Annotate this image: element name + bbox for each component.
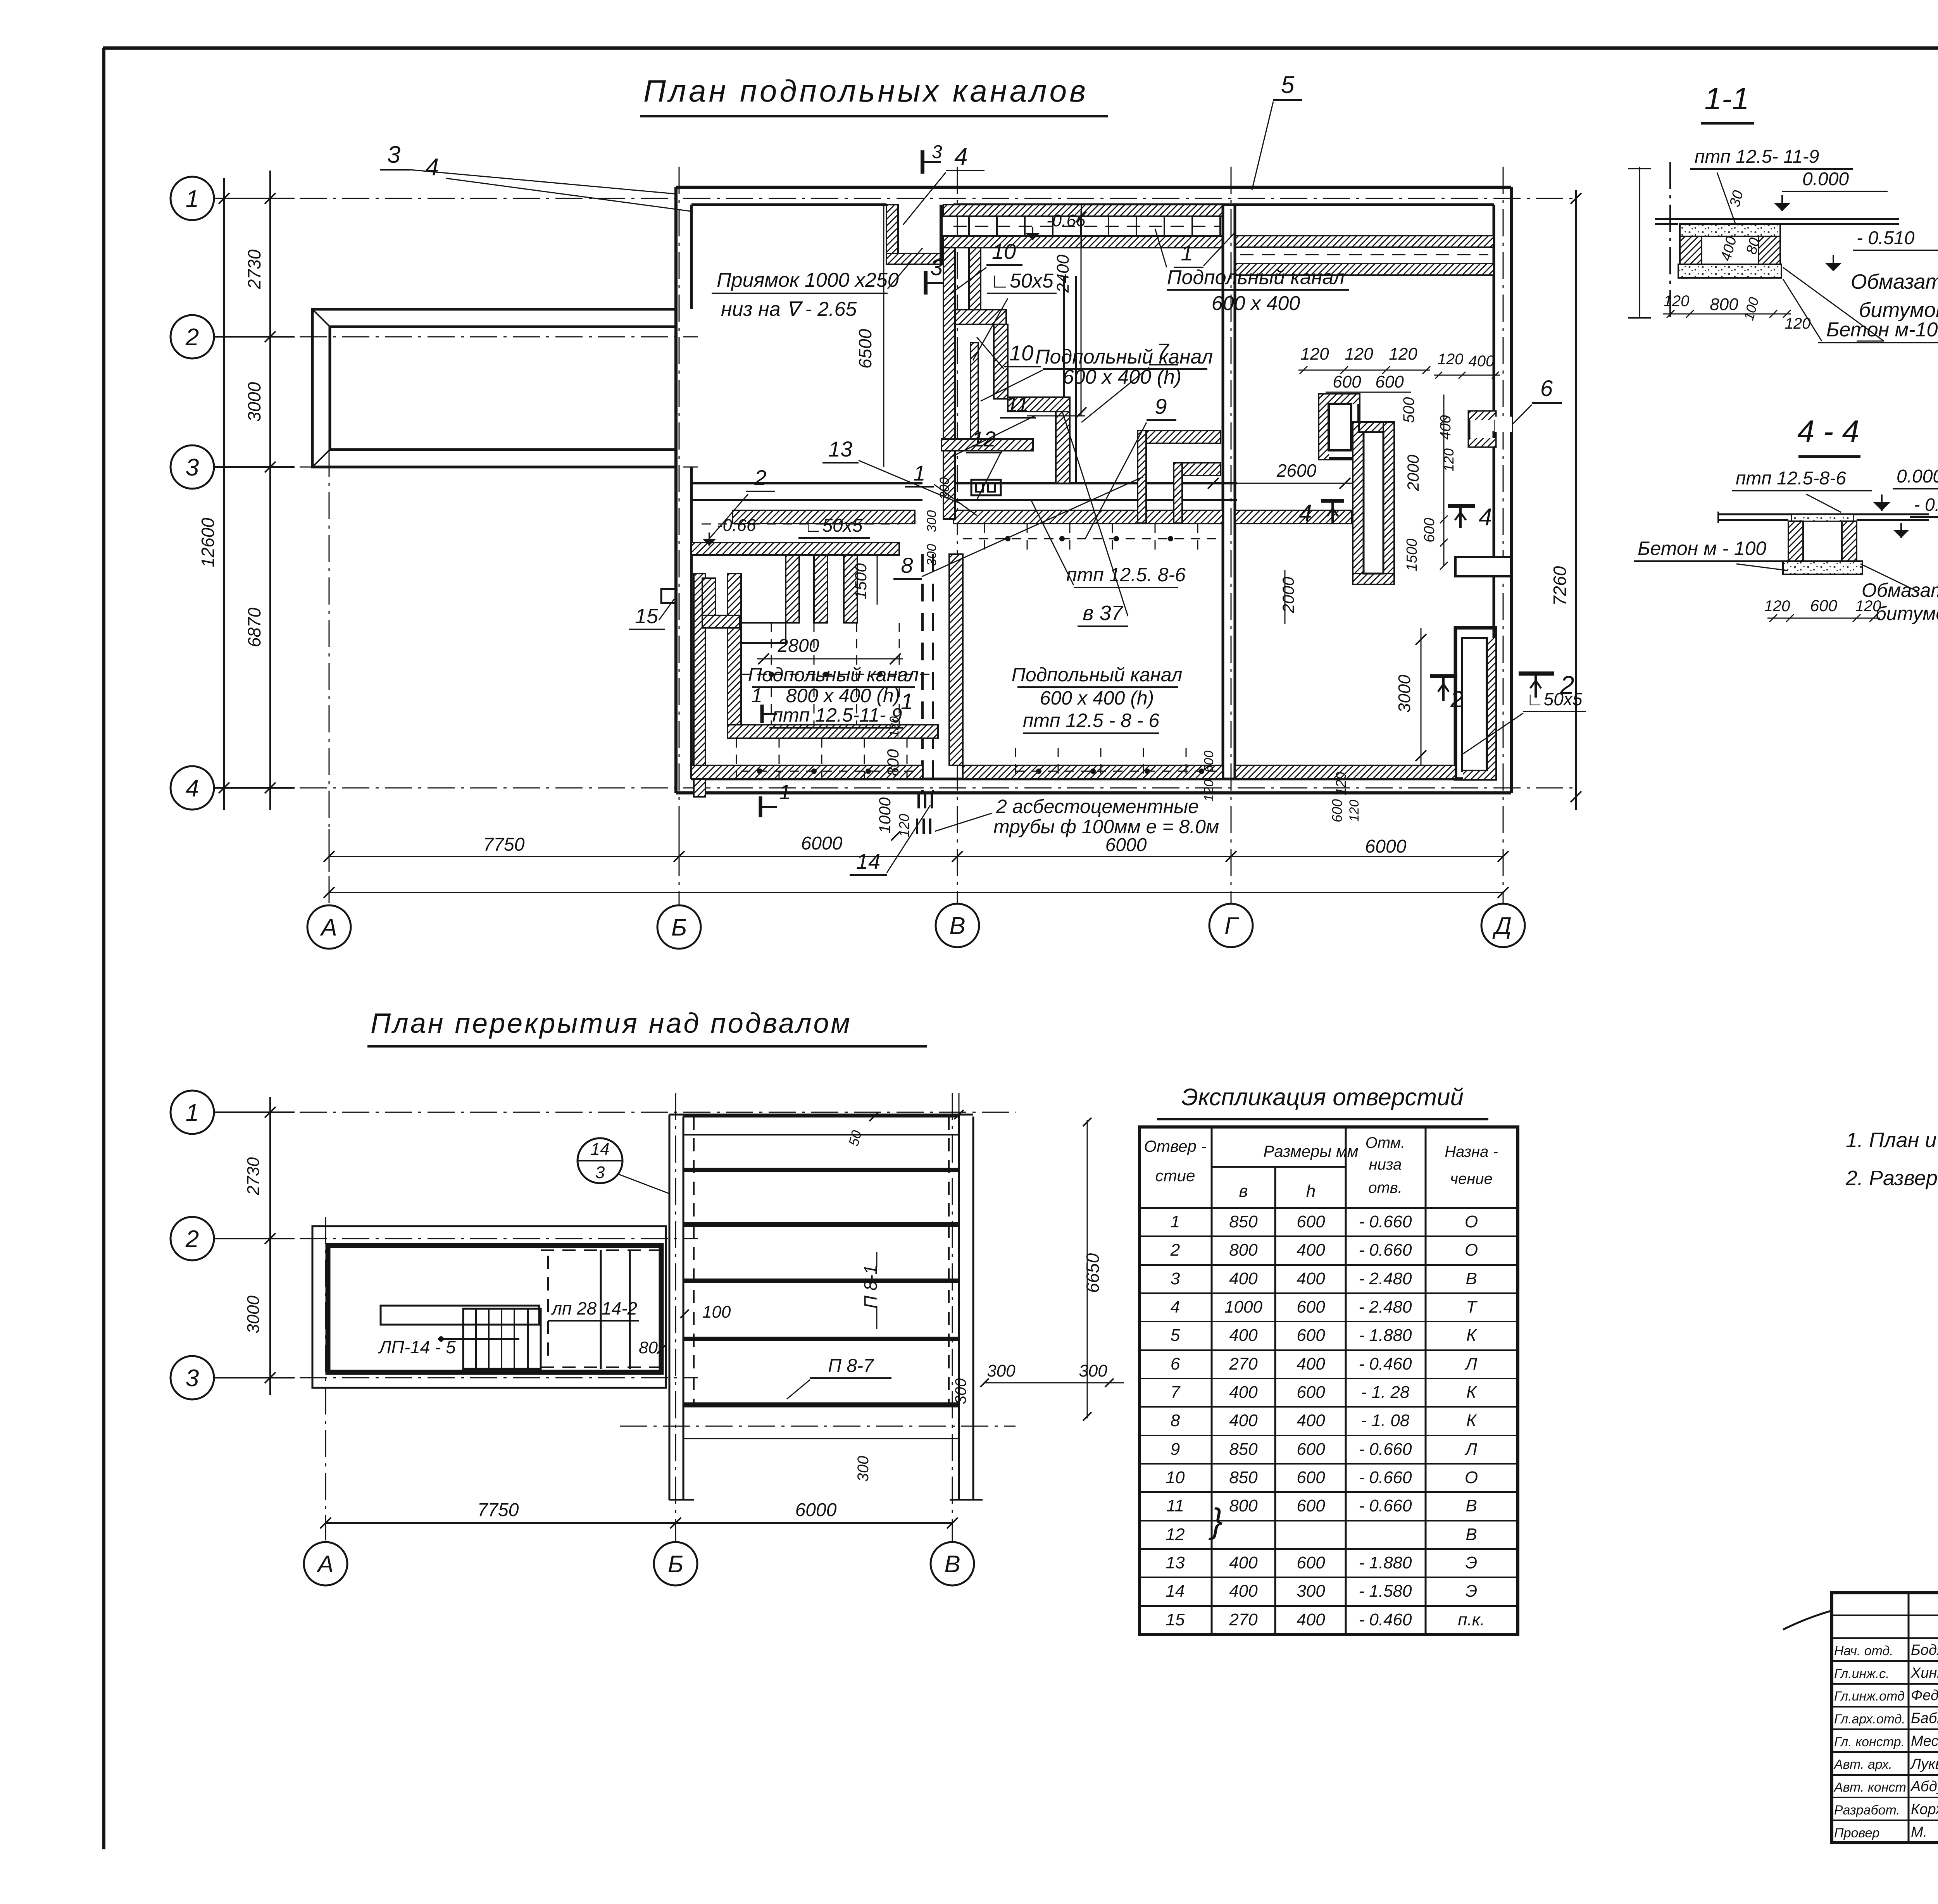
channel P-shape at G wall xyxy=(1142,431,1221,443)
svg-text:4: 4 xyxy=(426,154,439,181)
svg-text:Федорченко: Федорченко xyxy=(1911,1687,1938,1704)
svg-text:400: 400 xyxy=(1229,1383,1258,1402)
svg-text:10: 10 xyxy=(1009,341,1033,365)
svg-text:Абдулин: Абдулин xyxy=(1910,1778,1938,1795)
panel edge dashes xyxy=(693,1117,695,1405)
svg-text:П 8-1: П 8-1 xyxy=(860,1265,881,1309)
svg-text:600: 600 xyxy=(1297,1326,1325,1345)
svg-text:Отм.: Отм. xyxy=(1366,1134,1405,1151)
svg-text:В: В xyxy=(1466,1269,1477,1288)
top channel ladder lines xyxy=(968,216,970,236)
svg-text:3000: 3000 xyxy=(1395,675,1414,713)
outer wall right xyxy=(1510,187,1513,793)
svg-text:600: 600 xyxy=(1297,1440,1325,1459)
partition wall x2745 xyxy=(1063,276,1065,483)
svg-text:2: 2 xyxy=(1170,1241,1180,1260)
axis circle 1 xyxy=(171,177,214,220)
plan2 left block inner thick xyxy=(328,1246,661,1372)
svg-text:3: 3 xyxy=(387,141,400,168)
svg-text:План подпольных каналов: План подпольных каналов xyxy=(643,74,1088,108)
svg-text:низ на ∇ - 2.65: низ на ∇ - 2.65 xyxy=(721,298,857,320)
svg-text:Провер: Провер xyxy=(1834,1826,1879,1840)
slab dashes above comb xyxy=(702,524,899,525)
svg-text:План перекрытия над подвалом: План перекрытия над подвалом xyxy=(371,1008,852,1039)
plan2 bottom dims xyxy=(326,1522,952,1524)
svg-text:300: 300 xyxy=(855,1456,872,1482)
svg-text:120: 120 xyxy=(1664,293,1690,310)
svg-text:600: 600 xyxy=(1297,1496,1325,1515)
svg-text:А: А xyxy=(316,1551,333,1578)
svg-text:2730: 2730 xyxy=(244,1157,263,1196)
stamp left signature columns xyxy=(1908,1593,1910,1843)
asbestos pipes dashed xyxy=(921,554,924,793)
svg-text:лп 28 14-2: лп 28 14-2 xyxy=(551,1298,637,1318)
svg-text:2: 2 xyxy=(1450,686,1463,712)
top channel bands G-D xyxy=(1235,236,1494,247)
bottom channel band xyxy=(691,765,922,779)
svg-text:400: 400 xyxy=(1229,1582,1258,1601)
svg-text:13: 13 xyxy=(828,437,852,461)
right room zigzag channel: small box xyxy=(1319,395,1359,459)
svg-text:- 0.660: - 0.660 xyxy=(1359,1212,1412,1231)
svg-text:2: 2 xyxy=(185,1226,199,1253)
section 1-1 dims xyxy=(1663,314,1791,315)
svg-text:120: 120 xyxy=(1441,448,1457,472)
svg-text:5: 5 xyxy=(1281,72,1295,98)
6500 dim xyxy=(883,205,885,467)
svg-text:6000: 6000 xyxy=(801,833,843,854)
svg-text:14: 14 xyxy=(591,1140,610,1159)
svg-text:120: 120 xyxy=(1764,598,1790,615)
left dim chain xyxy=(269,171,271,810)
outer wall left xyxy=(674,187,678,793)
svg-text:Подпольный канал: Подпольный канал xyxy=(1035,346,1213,368)
svg-text:300: 300 xyxy=(1079,1361,1107,1380)
svg-text:14: 14 xyxy=(1166,1582,1185,1601)
svg-text:120: 120 xyxy=(1202,780,1216,802)
svg-text:2000: 2000 xyxy=(1404,455,1422,491)
dim 2800 left room xyxy=(757,658,903,660)
svg-text:К: К xyxy=(1466,1326,1477,1345)
callout circle 14/3 xyxy=(578,1138,622,1183)
svg-text:- 0.460: - 0.460 xyxy=(1359,1610,1412,1629)
svg-text:Лукьянов: Лукьянов xyxy=(1910,1756,1938,1772)
svg-text:11: 11 xyxy=(1166,1496,1184,1515)
svg-text:300: 300 xyxy=(952,1378,969,1404)
cut 1 bottom xyxy=(759,796,762,817)
axis line D vert xyxy=(1503,167,1504,903)
axis circle 3 xyxy=(171,1356,214,1399)
svg-text:К: К xyxy=(1466,1383,1477,1402)
svg-text:Бодянский: Бодянский xyxy=(1911,1642,1938,1658)
top channel dashed centerline xyxy=(1240,254,1488,255)
svg-text:- 0.510: - 0.510 xyxy=(1914,495,1938,515)
svg-text:Подпольный канал: Подпольный канал xyxy=(1012,664,1183,686)
svg-text:7: 7 xyxy=(1171,1383,1181,1402)
svg-text:- 1.880: - 1.880 xyxy=(1359,1553,1412,1572)
svg-text:850: 850 xyxy=(1229,1440,1258,1459)
axis circle В xyxy=(936,904,979,947)
svg-text:600: 600 xyxy=(1421,518,1438,542)
svg-text:800: 800 xyxy=(1229,1496,1258,1515)
svg-text:∟50х5: ∟50х5 xyxy=(990,270,1054,292)
svg-text:4: 4 xyxy=(954,143,967,170)
slab grid middle band upper xyxy=(984,524,985,554)
bottom dim chain xyxy=(329,856,1503,857)
svg-text:1000: 1000 xyxy=(1224,1297,1262,1316)
channel L-step right xyxy=(955,310,1006,324)
svg-text:270: 270 xyxy=(1229,1354,1258,1373)
svg-text:Бетон м-100: Бетон м-100 xyxy=(1826,319,1938,341)
stair bar xyxy=(381,1306,539,1325)
svg-text:800 х 400 (h): 800 х 400 (h) xyxy=(786,685,900,706)
svg-text:Обмазать горячим: Обмазать горячим xyxy=(1851,270,1938,293)
svg-text:2: 2 xyxy=(185,324,199,351)
svg-text:3000: 3000 xyxy=(244,382,264,422)
svg-text:О: О xyxy=(1465,1212,1478,1231)
plan2 right block walls xyxy=(669,1115,671,1500)
svg-text:3: 3 xyxy=(186,1365,199,1392)
svg-text:800: 800 xyxy=(1710,295,1738,314)
dim 3000 right xyxy=(1421,628,1422,765)
svg-text:∟50х5: ∟50х5 xyxy=(1526,689,1583,709)
sheet frame left border xyxy=(102,48,105,1849)
svg-text:битумом за 2 раза: битумом за 2 раза xyxy=(1876,603,1938,624)
comb channel teeth (left room) xyxy=(691,543,899,555)
svg-text:в 37: в 37 xyxy=(1083,601,1123,625)
svg-text:- 0.660: - 0.660 xyxy=(1359,1241,1412,1260)
svg-text:300: 300 xyxy=(924,544,939,566)
vertical channel at axis V lower xyxy=(949,554,963,765)
svg-text:- 0.660: - 0.660 xyxy=(1359,1440,1412,1459)
axis circle Г xyxy=(1209,904,1253,947)
svg-text:1: 1 xyxy=(1171,1212,1180,1231)
svg-text:11: 11 xyxy=(1006,392,1029,416)
svg-text:300: 300 xyxy=(924,510,939,532)
svg-text:6000: 6000 xyxy=(1105,835,1147,855)
svg-text:12: 12 xyxy=(1166,1525,1185,1544)
svg-text:0.000: 0.000 xyxy=(1897,466,1938,487)
svg-text:6870: 6870 xyxy=(244,607,264,647)
axis circle 4 xyxy=(171,766,214,810)
rotated dim stack right xyxy=(1443,395,1445,566)
axis circle В xyxy=(931,1542,974,1585)
svg-text:Гл. констр.: Гл. констр. xyxy=(1834,1735,1905,1749)
svg-text:стие: стие xyxy=(1155,1167,1195,1185)
svg-text:300: 300 xyxy=(937,477,952,500)
svg-text:Авт. конст: Авт. конст xyxy=(1833,1780,1906,1795)
svg-text:Назна -: Назна - xyxy=(1445,1143,1498,1160)
stub box right wall mid xyxy=(1455,557,1511,576)
svg-text:в: в xyxy=(1239,1182,1248,1201)
svg-text:2: 2 xyxy=(754,465,766,490)
svg-text:120: 120 xyxy=(1345,345,1373,364)
svg-text:Б: Б xyxy=(668,1551,683,1578)
svg-text:2 асбестоцементные: 2 асбестоцементные xyxy=(996,796,1199,817)
svg-text:10: 10 xyxy=(992,239,1016,264)
svg-text:600: 600 xyxy=(1375,372,1404,391)
axis circle 2 xyxy=(171,315,214,358)
svg-text:400: 400 xyxy=(1438,415,1454,439)
svg-text:400: 400 xyxy=(1229,1553,1258,1572)
svg-text:12600: 12600 xyxy=(198,518,218,567)
plan2 left block outer xyxy=(312,1226,666,1388)
floor slab dashed grid left xyxy=(736,738,737,779)
svg-text:- 1. 08: - 1. 08 xyxy=(1361,1411,1410,1430)
svg-text:- 1.580: - 1.580 xyxy=(1359,1582,1412,1601)
axis line A vert xyxy=(329,450,330,905)
explication table grid xyxy=(1140,1127,1518,1634)
svg-text:О: О xyxy=(1465,1241,1478,1260)
svg-text:О: О xyxy=(1465,1468,1478,1487)
svg-text:Приямок 1000 х250: Приямок 1000 х250 xyxy=(717,269,899,291)
svg-text:Подпольный канал: Подпольный канал xyxy=(1167,266,1345,289)
svg-text:низа: низа xyxy=(1369,1156,1402,1173)
svg-text:850: 850 xyxy=(1229,1212,1258,1231)
svg-text:4 - 4: 4 - 4 xyxy=(1797,414,1859,448)
plan2 left dims xyxy=(269,1097,271,1395)
svg-text:400: 400 xyxy=(1297,1610,1325,1629)
svg-text:Гл.инж.с.: Гл.инж.с. xyxy=(1834,1666,1890,1681)
svg-text:2730: 2730 xyxy=(244,249,264,289)
svg-text:∟50х5: ∟50х5 xyxy=(804,515,862,536)
svg-text:8: 8 xyxy=(901,553,913,577)
svg-text:7750: 7750 xyxy=(478,1500,519,1520)
svg-text:2. Развертки фундаментов с: 2. Развертки фундаментов см. лист АС – 8 xyxy=(1845,1167,1938,1190)
svg-text:1: 1 xyxy=(1181,241,1193,265)
sheet frame top border xyxy=(103,47,1938,50)
svg-text:Разработ.: Разработ. xyxy=(1834,1803,1900,1818)
svg-text:2600: 2600 xyxy=(1276,460,1317,481)
cross wall y1247 xyxy=(691,482,922,484)
2400 dim xyxy=(1081,211,1082,416)
svg-text:ЛП-14 - 5: ЛП-14 - 5 xyxy=(378,1337,456,1357)
svg-text:1000: 1000 xyxy=(876,797,894,834)
section 1-1 bottom strip xyxy=(1678,264,1781,278)
svg-text:1500: 1500 xyxy=(1404,539,1420,572)
svg-text:12: 12 xyxy=(972,427,996,451)
axis line 2 xyxy=(214,336,698,338)
svg-text:Б: Б xyxy=(671,914,687,941)
svg-text:1: 1 xyxy=(186,186,199,212)
plan2 axis lines xyxy=(214,1112,1016,1113)
svg-text:13: 13 xyxy=(1166,1553,1185,1572)
svg-text:птп 12.5-8-6: птп 12.5-8-6 xyxy=(1736,468,1846,489)
section 1-1 left datum xyxy=(1639,167,1640,319)
svg-text:1: 1 xyxy=(186,1099,199,1126)
svg-text:Бабыкина: Бабыкина xyxy=(1911,1710,1938,1727)
svg-text:Авт. арх.: Авт. арх. xyxy=(1833,1757,1892,1772)
svg-text:Подпольный канал: Подпольный канал xyxy=(748,664,919,686)
svg-text:400: 400 xyxy=(1297,1411,1325,1430)
svg-text:1. План и сечения фундамен: 1. План и сечения фундаментов см. лист А… xyxy=(1846,1129,1938,1152)
plan2 lower stubs xyxy=(669,1499,694,1501)
svg-text:80: 80 xyxy=(639,1338,658,1357)
axis circle 2 xyxy=(171,1217,214,1260)
svg-text:600: 600 xyxy=(1202,751,1216,773)
svg-text:7750: 7750 xyxy=(483,834,525,855)
svg-text:Л: Л xyxy=(1464,1440,1478,1459)
svg-text:Л: Л xyxy=(1464,1354,1478,1373)
svg-text:400: 400 xyxy=(1229,1326,1258,1345)
svg-text:7: 7 xyxy=(1157,339,1169,363)
svg-text:- 1.880: - 1.880 xyxy=(1359,1326,1412,1345)
dashed landing area xyxy=(541,1249,661,1251)
svg-text:0.000: 0.000 xyxy=(1802,169,1849,190)
axis line 1 xyxy=(214,198,1574,199)
svg-text:птп 12.5-11- 9: птп 12.5-11- 9 xyxy=(772,704,902,726)
svg-text:6650: 6650 xyxy=(1083,1253,1103,1293)
svg-text:15: 15 xyxy=(635,605,659,628)
svg-text:В: В xyxy=(1466,1525,1477,1544)
top channel bands V-G xyxy=(943,205,1223,216)
svg-text:В: В xyxy=(944,1551,960,1578)
dim 2000 mid room xyxy=(1285,570,1286,624)
svg-text:600: 600 xyxy=(1297,1297,1325,1316)
right room zigzag channel: tall leg xyxy=(1353,422,1364,584)
section 1-1 slab xyxy=(1680,224,1780,236)
svg-text:120: 120 xyxy=(887,716,901,737)
svg-text:Экспликация отверстий: Экспликация отверстий xyxy=(1181,1084,1464,1111)
pryamok pit box xyxy=(886,205,898,253)
section 1-1 walls xyxy=(1680,236,1702,264)
svg-text:- 1. 28: - 1. 28 xyxy=(1361,1383,1410,1402)
svg-text:600: 600 xyxy=(1297,1553,1325,1572)
axis line V vert xyxy=(957,167,958,903)
svg-text:800: 800 xyxy=(1229,1241,1258,1260)
stair treads xyxy=(463,1309,541,1369)
section 4-4 slab xyxy=(1718,513,1929,515)
axis circle 3 xyxy=(171,445,214,489)
svg-text:300: 300 xyxy=(1297,1582,1325,1601)
svg-text:2000: 2000 xyxy=(1279,577,1297,613)
stray line near stamp left xyxy=(1783,1611,1832,1630)
right dim 7260 xyxy=(1575,190,1577,810)
svg-text:7260: 7260 xyxy=(1550,566,1570,606)
axis circle Д xyxy=(1481,904,1525,947)
svg-text:Коржизек: Коржизек xyxy=(1911,1801,1938,1818)
svg-text:400: 400 xyxy=(1229,1411,1258,1430)
svg-text:- 2.480: - 2.480 xyxy=(1359,1297,1412,1316)
central wall on axis G xyxy=(1222,205,1224,779)
svg-text:Э: Э xyxy=(1466,1582,1478,1601)
outer wall top xyxy=(676,186,1511,189)
svg-text:птп 12.5 - 8 - 6: птп 12.5 - 8 - 6 xyxy=(1023,710,1160,731)
svg-text:15: 15 xyxy=(1166,1610,1185,1629)
axis circle А xyxy=(307,905,351,949)
cut mark 3 xyxy=(924,271,928,295)
section 1-1 floor line xyxy=(1655,218,1899,220)
svg-text:А: А xyxy=(319,914,337,941)
channel band under cross wall xyxy=(733,510,915,524)
svg-text:1500: 1500 xyxy=(852,563,870,600)
svg-text:10: 10 xyxy=(1166,1468,1185,1487)
svg-text:400: 400 xyxy=(1297,1241,1325,1260)
svg-text:3000: 3000 xyxy=(244,1296,263,1334)
svg-text:Местецкий: Местецкий xyxy=(1911,1733,1938,1749)
svg-text:1: 1 xyxy=(751,684,762,707)
dim 2600 xyxy=(1205,483,1353,484)
svg-text:6000: 6000 xyxy=(795,1500,837,1520)
svg-text:3: 3 xyxy=(932,142,942,162)
svg-text:Нач. отд.: Нач. отд. xyxy=(1834,1644,1893,1658)
axis circle А xyxy=(304,1542,347,1585)
svg-text:14: 14 xyxy=(856,849,880,874)
svg-text:120: 120 xyxy=(1855,598,1881,615)
svg-text:500: 500 xyxy=(1400,397,1417,423)
svg-text:4: 4 xyxy=(1171,1297,1180,1316)
svg-text:600: 600 xyxy=(1297,1212,1325,1231)
svg-text:К: К xyxy=(1466,1411,1477,1430)
svg-text:3: 3 xyxy=(1171,1269,1180,1288)
svg-text:800: 800 xyxy=(884,749,902,776)
axis line G vert xyxy=(1231,167,1232,903)
svg-text:-0.66: -0.66 xyxy=(717,516,756,535)
plan2 panels xyxy=(683,1116,959,1118)
corridor wing walls (axes 2-3) xyxy=(312,309,676,467)
svg-text:В: В xyxy=(1466,1496,1477,1515)
svg-text:h: h xyxy=(1306,1182,1316,1201)
cut 4 marks mid xyxy=(1321,499,1344,503)
step boxes left room xyxy=(702,578,716,628)
svg-text:8: 8 xyxy=(1171,1411,1180,1430)
svg-text:Размеры мм: Размеры мм xyxy=(1263,1142,1358,1160)
svg-text:- 0.660: - 0.660 xyxy=(1359,1496,1412,1515)
svg-text:600 х 400 (h): 600 х 400 (h) xyxy=(1040,687,1154,709)
svg-text:1: 1 xyxy=(901,689,913,714)
svg-text:400: 400 xyxy=(1469,353,1495,370)
svg-text:Д: Д xyxy=(1492,913,1512,939)
svg-text:3: 3 xyxy=(186,454,199,481)
svg-text:600: 600 xyxy=(1810,596,1838,615)
svg-text:Г: Г xyxy=(1224,913,1239,939)
svg-text:9: 9 xyxy=(1171,1440,1180,1459)
axis line B vert xyxy=(679,167,680,905)
section 4-4 channel walls xyxy=(1788,521,1803,561)
svg-text:трубы ф 100мм е = 8.0м: трубы ф 100мм е = 8.0м xyxy=(993,816,1219,837)
svg-text:птп 12.5. 8-6: птп 12.5. 8-6 xyxy=(1066,564,1186,586)
svg-text:П 8-7: П 8-7 xyxy=(828,1356,874,1376)
svg-text:6000: 6000 xyxy=(1365,836,1407,857)
svg-text:чение: чение xyxy=(1450,1170,1492,1187)
vertical channel at axis V upper xyxy=(943,248,955,519)
svg-text:- 0.510: - 0.510 xyxy=(1857,228,1915,248)
svg-text:120: 120 xyxy=(1300,345,1329,364)
svg-text:Бетон м - 100: Бетон м - 100 xyxy=(1638,538,1766,559)
svg-text:Хинкис: Хинкис xyxy=(1910,1665,1938,1681)
svg-text:битумом за 2 раза: битумом за 2 раза xyxy=(1859,298,1938,322)
svg-text:- 0.460: - 0.460 xyxy=(1359,1354,1412,1373)
svg-text:850: 850 xyxy=(1229,1468,1258,1487)
svg-text:птп 12.5- 11-9: птп 12.5- 11-9 xyxy=(1695,146,1819,167)
cut 1 marks left room xyxy=(760,705,764,723)
small stub on left wall (opening 15) xyxy=(661,589,676,603)
svg-text:3: 3 xyxy=(595,1163,605,1182)
axis circle Б xyxy=(654,1542,697,1585)
outer wall bottom xyxy=(676,791,1511,794)
svg-text:6: 6 xyxy=(1171,1354,1180,1373)
svg-text:6500: 6500 xyxy=(855,329,875,369)
axis circle 1 xyxy=(171,1091,214,1134)
dim 1500 / callout 8 xyxy=(877,555,878,605)
cut 2 marks xyxy=(1430,674,1457,678)
svg-text:270: 270 xyxy=(1229,1610,1258,1629)
svg-text:Э: Э xyxy=(1466,1553,1478,1572)
svg-text:120: 120 xyxy=(1389,345,1417,364)
svg-text:Гл.арх.отд.: Гл.арх.отд. xyxy=(1834,1712,1905,1727)
svg-text:- 2.480: - 2.480 xyxy=(1359,1269,1412,1288)
svg-text:4: 4 xyxy=(186,775,199,802)
